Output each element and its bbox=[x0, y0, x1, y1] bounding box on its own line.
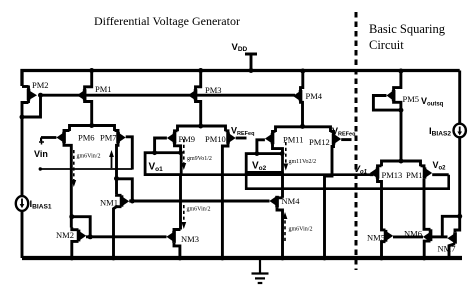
current arrow gm6Vin/2 at PM6 bbox=[71, 150, 100, 187]
wire bottom ground rail bbox=[22, 256, 462, 260]
svg-text:VREFeq: VREFeq bbox=[231, 126, 254, 138]
transistor pair tent PM11 PM12 bbox=[276, 124, 331, 132]
svg-text:PM4: PM4 bbox=[306, 91, 323, 101]
svg-text:PM5: PM5 bbox=[403, 94, 420, 104]
current arrow gm9Vo1/2 at PM9 bbox=[181, 139, 212, 170]
transistor NM3 bbox=[166, 230, 199, 259]
transistor PM5 bbox=[373, 69, 419, 113]
svg-text:PM7: PM7 bbox=[100, 133, 117, 143]
svg-text:PM3: PM3 bbox=[205, 85, 222, 95]
transistor NM2 bbox=[56, 227, 86, 258]
svg-text:PM1: PM1 bbox=[95, 84, 112, 94]
transistor NM7 bbox=[438, 216, 460, 258]
svg-text:PM13: PM13 bbox=[382, 170, 403, 180]
current source IBIAS2 bbox=[429, 71, 466, 217]
svg-text:Vo2: Vo2 bbox=[433, 160, 447, 172]
wire NM1 diode loop bbox=[114, 176, 135, 204]
transistor PM10 bbox=[205, 131, 247, 258]
wire NM7 diode loop to IBIAS2 bbox=[442, 214, 462, 237]
transistor PM3 bbox=[188, 68, 222, 126]
svg-text:VREFeq: VREFeq bbox=[332, 126, 355, 138]
transistor PM11 bbox=[257, 131, 304, 153]
svg-text:PM6: PM6 bbox=[78, 133, 95, 143]
wire NM1 gate to NM4 gate bbox=[129, 200, 269, 203]
svg-text:PM10: PM10 bbox=[205, 134, 226, 144]
transistor PM6 bbox=[41, 131, 95, 228]
node box Vo1 bbox=[145, 150, 183, 174]
svg-text:Vo1: Vo1 bbox=[354, 164, 368, 176]
svg-text:NM4: NM4 bbox=[282, 196, 301, 206]
transistor pair tent PM9 PM10 bbox=[178, 124, 226, 132]
wire Vin lower input line bbox=[39, 167, 133, 170]
svg-text:Circuit: Circuit bbox=[369, 38, 404, 52]
svg-text:PM2: PM2 bbox=[32, 80, 49, 90]
current source IBIAS1 bbox=[16, 196, 52, 258]
svg-text:PM12: PM12 bbox=[309, 137, 330, 147]
transistor NM4 bbox=[269, 196, 300, 258]
svg-text:gm6Vin/2: gm6Vin/2 bbox=[77, 154, 101, 160]
svg-text:Voutsq: Voutsq bbox=[421, 96, 444, 108]
svg-text:gm11Vo2/2: gm11Vo2/2 bbox=[289, 159, 317, 165]
wire NM2 diode loop bbox=[69, 214, 92, 239]
svg-text:NM5: NM5 bbox=[367, 233, 385, 243]
svg-text:PM14: PM14 bbox=[406, 170, 428, 180]
input Vin plus terminal bbox=[34, 138, 48, 160]
transistor PM7 bbox=[100, 131, 132, 195]
svg-text:Basic Squaring: Basic Squaring bbox=[369, 22, 446, 36]
transistor NM5 bbox=[367, 229, 393, 259]
transistor PM9 bbox=[155, 131, 195, 153]
dashed section divider bbox=[355, 12, 358, 270]
current arrow gm11Vo2/2 at PM11 bbox=[283, 142, 316, 171]
wire Vo1 box to NM3 bbox=[179, 175, 182, 230]
wire VDD top rail bbox=[22, 71, 460, 87]
wire NM5 gate bus to NM6 bbox=[393, 235, 423, 238]
transistor PM4 bbox=[293, 69, 323, 127]
ground symbol bbox=[252, 258, 269, 283]
svg-text:IBIAS1: IBIAS1 bbox=[30, 199, 52, 211]
svg-text:NM1: NM1 bbox=[100, 198, 118, 208]
transistor PM12 bbox=[309, 131, 352, 258]
wire gate bus PM2-PM1-PM3-PM4 bbox=[41, 94, 296, 97]
junction dots on bottom rail bbox=[69, 256, 426, 261]
svg-text:VDD: VDD bbox=[232, 42, 248, 53]
current arrow gm6Vin/2 at NM3 bbox=[181, 205, 210, 229]
current arrow gm6Vin/2 at NM4 bbox=[283, 212, 313, 241]
wire Vo2 box to NM4 bbox=[281, 172, 284, 197]
svg-text:Differential Voltage Generator: Differential Voltage Generator bbox=[94, 14, 240, 28]
VDD supply bbox=[232, 42, 258, 73]
svg-text:NM2: NM2 bbox=[56, 230, 74, 240]
transistor PM13 bbox=[370, 166, 402, 229]
transistor NM6 bbox=[404, 228, 432, 259]
transistor PM14 bbox=[406, 166, 449, 228]
svg-text:PM9: PM9 bbox=[179, 134, 196, 144]
wire Vo1 bus to PM13 bbox=[181, 173, 373, 176]
svg-text:IBIAS2: IBIAS2 bbox=[429, 126, 451, 138]
wire NM2 gate bus to NM3 bbox=[86, 235, 167, 238]
wire Vo2 bus to PM14 bbox=[246, 172, 449, 188]
wire NM6 to NM7 gate bbox=[432, 235, 448, 238]
node box Vo2 bbox=[246, 151, 284, 172]
transistor NM1 bbox=[100, 194, 129, 258]
svg-text:NM7: NM7 bbox=[438, 244, 456, 254]
current arrow solid at PM7 bbox=[109, 150, 114, 168]
svg-text:NM6: NM6 bbox=[404, 229, 422, 239]
svg-text:Vin: Vin bbox=[34, 149, 48, 159]
transistor PM2 bbox=[20, 80, 49, 196]
svg-text:gm6Vin/2: gm6Vin/2 bbox=[187, 207, 211, 213]
transistor pair tent PM13 PM14 bbox=[382, 110, 421, 166]
svg-text:NM3: NM3 bbox=[181, 234, 199, 244]
transistor PM1 bbox=[77, 68, 112, 126]
svg-text:gm9Vo1/2: gm9Vo1/2 bbox=[187, 156, 212, 162]
svg-text:gm6Vin/2: gm6Vin/2 bbox=[289, 227, 313, 233]
transistor pair tent PM6 PM7 bbox=[70, 123, 115, 131]
